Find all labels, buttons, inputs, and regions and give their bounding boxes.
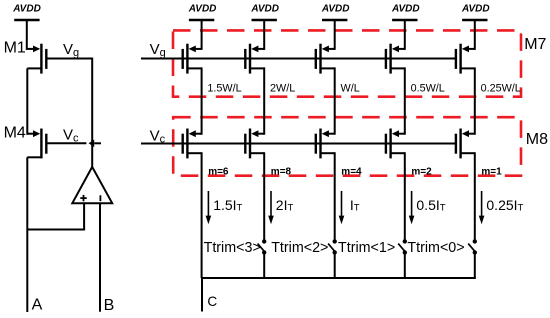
svg-text:Ttrim<0>: Ttrim<0> xyxy=(407,240,464,256)
wire M8e drain down to switch xyxy=(474,152,476,241)
control label Ttrim&lt;0&gt; xyxy=(407,240,464,256)
svg-text:W/L: W/L xyxy=(341,82,360,94)
power symbol AVDD (left branch) xyxy=(12,4,41,50)
svg-text:2IT: 2IT xyxy=(276,197,294,214)
transistor M7e (row M7, PMOS) xyxy=(456,44,475,74)
wire M7e drain to M8e source xyxy=(474,67,476,134)
control label Ttrim&lt;2&gt; xyxy=(271,240,328,256)
wire M7b drain to M8b source xyxy=(263,67,265,134)
dashed box M7 group xyxy=(173,30,521,96)
current label 0.25IT xyxy=(486,197,523,214)
svg-text:m=4: m=4 xyxy=(341,166,362,177)
svg-text:M1: M1 xyxy=(4,39,26,56)
power symbol AVDD (column 5) xyxy=(461,4,490,50)
switch Ttrim<1> (dots and blade) xyxy=(398,239,407,254)
svg-text:0.25IT: 0.25IT xyxy=(486,197,523,214)
switch Ttrim<2> (dots and blade) xyxy=(328,239,337,254)
value label m=2 xyxy=(411,166,432,177)
wire AVDD bar to M1 source xyxy=(27,48,35,50)
svg-text:Vc: Vc xyxy=(63,127,79,145)
wire M8b drain down to switch xyxy=(263,152,265,241)
svg-text:M7: M7 xyxy=(524,36,546,53)
transistor M7b (row M7, PMOS) xyxy=(245,44,264,74)
current arrow IT (column 3) xyxy=(339,191,345,224)
svg-text:AVDD: AVDD xyxy=(250,4,279,15)
wire op-amp inverting input down to node B xyxy=(99,203,101,312)
svg-text:1.5W/L: 1.5W/L xyxy=(207,82,241,94)
svg-text:Ttrim<2>: Ttrim<2> xyxy=(271,240,328,256)
svg-text:AVDD: AVDD xyxy=(461,4,490,15)
control label Ttrim&lt;3&gt; xyxy=(204,240,261,256)
dashed box M8 group xyxy=(173,117,521,176)
value label m=4 xyxy=(341,166,362,177)
power symbol AVDD (column 3) xyxy=(321,4,350,50)
value label 0.25W/L xyxy=(481,82,521,94)
wire M7c drain to M8c source xyxy=(334,67,336,134)
svg-text:0.5IT: 0.5IT xyxy=(416,197,445,214)
wire M8d drain down to switch xyxy=(404,152,406,241)
wire op-amp noninverting input down and left xyxy=(27,203,85,229)
node A label xyxy=(32,297,43,314)
current arrow 1.5IT (column 1) xyxy=(206,191,212,224)
svg-text:AVDD: AVDD xyxy=(12,4,41,15)
svg-text:m=8: m=8 xyxy=(271,166,292,177)
transistor M8d (row M8, PMOS) xyxy=(386,129,405,159)
svg-text:AVDD: AVDD xyxy=(188,4,217,15)
svg-text:B: B xyxy=(104,297,115,314)
svg-text:m=6: m=6 xyxy=(208,166,229,177)
wire M4 drain down to node A xyxy=(26,157,28,312)
wire switch to bottom rail (column 2) xyxy=(263,252,265,278)
label M1 xyxy=(4,39,26,56)
wire M4 gate (Vc) with feedback arrowhead xyxy=(46,140,101,148)
svg-text:1.5IT: 1.5IT xyxy=(213,197,242,214)
switch Ttrim<3> (dots and blade) xyxy=(258,239,267,254)
svg-text:0.25W/L: 0.25W/L xyxy=(481,82,521,94)
svg-text:C: C xyxy=(207,294,217,309)
op-amp U1 (triangle pointing up) xyxy=(72,167,112,203)
svg-text:M4: M4 xyxy=(4,125,26,142)
power symbol AVDD (column 1) xyxy=(188,4,217,50)
svg-text:m=2: m=2 xyxy=(411,166,432,177)
wire switch to bottom rail (column 5) xyxy=(474,252,476,278)
label M4 xyxy=(4,125,26,142)
wire M4 source stub xyxy=(27,133,35,135)
label Vc (left) xyxy=(63,127,79,145)
value label 1.5W/L xyxy=(207,82,241,94)
svg-text:AVDD: AVDD xyxy=(391,4,420,15)
current arrow 2IT (column 2) xyxy=(268,191,274,224)
transistor M1 (PMOS, source arrow) xyxy=(27,44,46,74)
svg-text:Vg: Vg xyxy=(63,41,79,59)
power symbol AVDD (column 4) xyxy=(391,4,420,50)
wire M7d drain to M8d source xyxy=(404,67,406,134)
value label W/L xyxy=(341,82,360,94)
wire switch to bottom rail (column 4) xyxy=(404,252,406,278)
wire M1 drain down to M4 source xyxy=(26,68,28,134)
transistor M7d (row M7, PMOS) xyxy=(386,44,405,74)
value label m=1 xyxy=(481,166,502,177)
value label m=8 xyxy=(271,166,292,177)
svg-text:AVDD: AVDD xyxy=(321,4,350,15)
svg-text:A: A xyxy=(32,297,43,314)
node B label xyxy=(104,297,115,314)
transistor M8c (row M8, PMOS) xyxy=(316,129,335,159)
value label 2W/L xyxy=(270,82,295,94)
wire M7a drain to M8a source xyxy=(201,67,203,134)
current arrow 0.25IT (column 5) xyxy=(479,191,485,224)
wire M8c drain down to switch xyxy=(334,152,336,241)
current label 2IT xyxy=(276,197,294,214)
transistor M8e (row M8, PMOS) xyxy=(456,129,475,159)
svg-text:Ttrim<1>: Ttrim<1> xyxy=(338,240,395,256)
transistor M7a (row M7, PMOS) xyxy=(183,44,202,74)
label Vg (rail) xyxy=(150,41,166,59)
transistor M7c (row M7, PMOS) xyxy=(316,44,335,74)
svg-text:Ttrim<3>: Ttrim<3> xyxy=(204,240,261,256)
label M7 xyxy=(524,36,546,53)
svg-text:M8: M8 xyxy=(526,131,548,148)
node C label xyxy=(207,294,217,309)
transistor M4 (PMOS, source arrow) xyxy=(27,129,46,159)
wire Vc rail xyxy=(141,143,456,145)
wire node C down xyxy=(201,278,203,312)
current arrow 0.5IT (column 4) xyxy=(409,191,415,224)
wire switch to bottom rail (column 3) xyxy=(334,252,336,278)
svg-text:Vc: Vc xyxy=(150,128,166,146)
svg-text:m=1: m=1 xyxy=(481,166,502,177)
transistor M8b (row M8, PMOS) xyxy=(245,129,264,159)
svg-text:Vg: Vg xyxy=(150,41,166,59)
label M8 xyxy=(526,131,548,148)
label Vc (rail) xyxy=(150,128,166,146)
current label 0.5IT xyxy=(416,197,445,214)
wire M8a drain down to bottom rail xyxy=(201,152,203,278)
transistor M8a (row M8, PMOS) xyxy=(183,129,202,159)
wire M1 gate right then down to op-amp output node xyxy=(46,58,92,167)
control label Ttrim&lt;1&gt; xyxy=(338,240,395,256)
power symbol AVDD (column 2) xyxy=(250,4,279,50)
label Vg (left) xyxy=(63,41,79,59)
svg-text:2W/L: 2W/L xyxy=(270,82,295,94)
svg-text:0.5W/L: 0.5W/L xyxy=(411,82,445,94)
switch Ttrim<0> (dots and blade) xyxy=(468,239,477,254)
wire Vg rail xyxy=(141,58,456,60)
value label 0.5W/L xyxy=(411,82,445,94)
svg-text:IT: IT xyxy=(350,197,360,214)
value label m=6 xyxy=(208,166,229,177)
current label 1.5IT xyxy=(213,197,242,214)
current label IT xyxy=(350,197,360,214)
wire bottom rail (node C) xyxy=(202,277,476,279)
